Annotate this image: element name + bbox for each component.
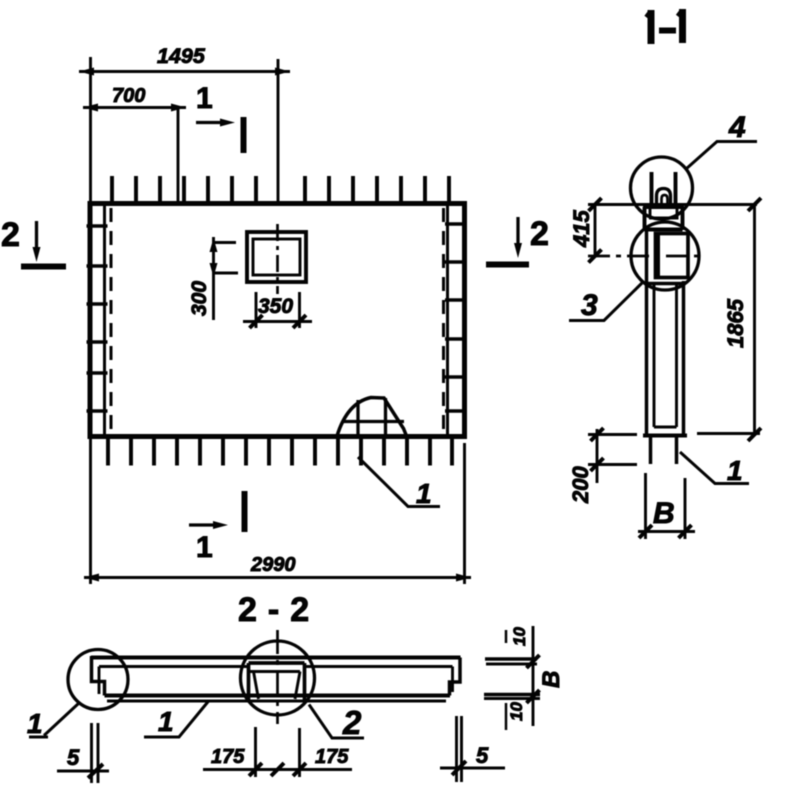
dim 350 extension lines <box>256 292 300 328</box>
detail circle bottom (node 3) <box>631 222 699 290</box>
svg-text:2-2: 2-2 <box>238 591 320 629</box>
dim 175+175 <box>256 727 300 777</box>
right edge break lines (top pair) <box>485 657 537 661</box>
right edge break lines (bottom pair) <box>484 693 540 697</box>
dim 300 line <box>214 237 239 320</box>
label 4 leader <box>686 142 757 170</box>
leader label 2 (middle) <box>309 705 364 739</box>
section mark 1 top: arrow <box>196 121 224 124</box>
dim 1495 line <box>79 70 290 73</box>
svg-text:5: 5 <box>476 743 489 768</box>
svg-text:В: В <box>538 671 565 688</box>
svg-text:4: 4 <box>728 111 746 144</box>
section mark 2 right: arrow <box>516 217 519 246</box>
panel left edge ticks <box>87 226 108 411</box>
lifting loop arch <box>657 189 671 207</box>
svg-text:1: 1 <box>416 478 432 509</box>
svg-text:300: 300 <box>188 281 211 316</box>
dim 2990 line <box>84 576 471 579</box>
slab tail below bottom <box>651 438 677 465</box>
detail circle top (node 4) <box>631 157 693 219</box>
svg-text:1865: 1865 <box>723 298 748 348</box>
svg-text:2: 2 <box>1 216 20 254</box>
dim 1495 extension lines <box>91 57 279 204</box>
panel right edge dashed line <box>442 208 445 434</box>
svg-text:10: 10 <box>507 702 526 721</box>
connector block (node 3) <box>656 234 689 278</box>
panel right edge inner line <box>446 204 449 436</box>
dim 1495 arrows <box>79 68 290 76</box>
svg-text:175: 175 <box>211 746 245 768</box>
dim B (bottom of 1-1) <box>646 473 686 539</box>
dim 2990 extension lines <box>91 437 465 584</box>
opening former (section) <box>249 663 305 700</box>
section mark 1 top: bar <box>241 117 247 153</box>
slab bottom outer line <box>105 694 451 698</box>
slab inner faces <box>654 284 677 428</box>
svg-text:1495: 1495 <box>157 44 206 68</box>
leader label 1 (left end) <box>29 703 79 737</box>
leader label 1 (slab bottom) <box>144 701 209 738</box>
svg-text:5: 5 <box>67 745 80 770</box>
opening outer rect <box>247 232 306 282</box>
svg-text:415: 415 <box>569 210 594 248</box>
svg-text:10: 10 <box>510 627 529 646</box>
detail circle left end <box>68 650 128 710</box>
svg-text:В: В <box>653 497 675 530</box>
section mark 2 left: bar <box>21 264 66 270</box>
slab bottom edge <box>643 434 687 438</box>
slab bottom inner line <box>107 700 446 703</box>
dim 700 extension line <box>177 108 180 204</box>
opening vertical centerline <box>276 224 279 294</box>
top extension line <box>588 203 757 206</box>
svg-text:1: 1 <box>27 708 43 739</box>
label 3 leader <box>569 283 642 321</box>
dim 415 <box>594 205 597 257</box>
svg-text:700: 700 <box>112 85 145 107</box>
svg-text:175: 175 <box>315 746 349 768</box>
dim 5 right <box>457 716 462 782</box>
panel outline (plan view) <box>90 204 465 437</box>
svg-text:2: 2 <box>530 215 549 253</box>
dim 1865 <box>753 205 756 435</box>
lifting loop legs (section) <box>652 172 676 207</box>
svg-text:1: 1 <box>196 82 213 115</box>
dim 700 line <box>83 106 186 109</box>
slab right end profile <box>450 658 461 696</box>
dim stack 10 / B / 10 <box>532 626 535 726</box>
svg-text:350: 350 <box>258 295 293 318</box>
slab top inner line <box>99 665 453 668</box>
lifting loop hump (plan) <box>337 398 407 437</box>
svg-text:1: 1 <box>196 531 213 564</box>
panel right edge ticks <box>445 224 467 411</box>
dim 700 arrows <box>83 104 186 112</box>
svg-text:1: 1 <box>158 706 174 737</box>
section mark 2 right: bar <box>486 262 529 268</box>
centerline of connector <box>588 255 702 258</box>
line below circle <box>647 282 685 286</box>
section mark 2 left: arrow <box>35 221 38 250</box>
section mark 1 bottom: arrow <box>189 523 217 526</box>
former centerline <box>276 630 279 724</box>
dim 200 <box>596 429 599 483</box>
label 1 leader (1-1 view) <box>680 452 749 484</box>
svg-text:1: 1 <box>727 455 743 486</box>
dim 350 line <box>243 320 312 323</box>
lifting loop inner lines <box>342 398 404 436</box>
svg-text:2990: 2990 <box>250 554 296 576</box>
svg-text:3: 3 <box>581 289 598 322</box>
title 1-1 <box>651 9 683 44</box>
top rebar ticks <box>112 176 449 203</box>
dim 350 slashes <box>250 315 307 328</box>
dim 300 arrows <box>210 238 218 277</box>
collar below loop <box>643 207 684 230</box>
opening inner rect <box>253 239 300 275</box>
dim 2990 arrows <box>84 574 471 582</box>
svg-text:2: 2 <box>342 704 362 741</box>
slab outer faces <box>647 230 684 436</box>
section mark 1 bottom: bar <box>242 491 248 532</box>
panel left edge dashed line <box>110 208 113 434</box>
slab top outer line <box>91 656 461 660</box>
detail circle middle <box>241 641 315 715</box>
bottom rebar ticks <box>108 437 452 466</box>
slab left end profile <box>92 656 105 696</box>
dim 5 left <box>92 723 99 783</box>
leader to loop, label 1 <box>358 457 440 507</box>
svg-text:200: 200 <box>568 466 593 504</box>
panel left edge inner line <box>103 204 106 436</box>
